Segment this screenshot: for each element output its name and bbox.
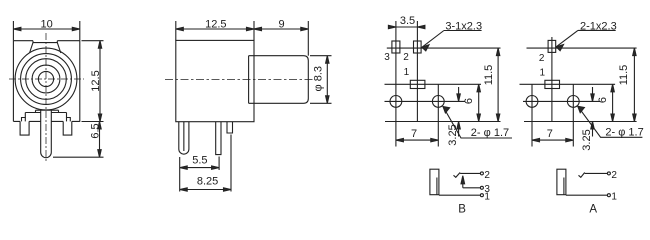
svg-text:2: 2	[484, 170, 490, 181]
svg-text:10: 10	[40, 19, 52, 31]
svg-text:11.5: 11.5	[483, 65, 495, 86]
svg-text:2: 2	[611, 170, 617, 181]
svg-text:8.25: 8.25	[197, 175, 218, 187]
svg-text:2: 2	[539, 53, 545, 64]
svg-text:3: 3	[384, 52, 390, 63]
svg-text:1: 1	[404, 67, 410, 78]
svg-text:12.5: 12.5	[90, 70, 102, 91]
svg-text:2- φ 1.7: 2- φ 1.7	[471, 127, 509, 139]
svg-text:B: B	[458, 204, 466, 216]
svg-text:1: 1	[484, 191, 490, 202]
svg-text:9: 9	[278, 19, 284, 31]
svg-text:6: 6	[597, 97, 609, 103]
svg-text:12.5: 12.5	[205, 19, 226, 31]
svg-text:6.5: 6.5	[90, 123, 102, 138]
svg-text:11.5: 11.5	[618, 65, 630, 86]
svg-text:3.5: 3.5	[400, 15, 415, 27]
svg-text:1: 1	[611, 191, 617, 202]
svg-text:3.25: 3.25	[581, 129, 593, 150]
svg-text:2- φ 1.7: 2- φ 1.7	[605, 127, 643, 139]
svg-text:3.25: 3.25	[447, 124, 459, 145]
svg-text:2-1x2.3: 2-1x2.3	[580, 20, 617, 32]
svg-text:6: 6	[463, 98, 475, 104]
svg-text:1: 1	[540, 68, 546, 79]
svg-text:5.5: 5.5	[192, 155, 207, 167]
svg-text:φ 8.3: φ 8.3	[313, 66, 325, 91]
svg-text:A: A	[589, 204, 597, 216]
svg-text:2: 2	[403, 52, 409, 63]
svg-text:7: 7	[411, 128, 417, 140]
svg-text:3-1x2.3: 3-1x2.3	[445, 20, 482, 32]
svg-text:7: 7	[547, 128, 553, 140]
